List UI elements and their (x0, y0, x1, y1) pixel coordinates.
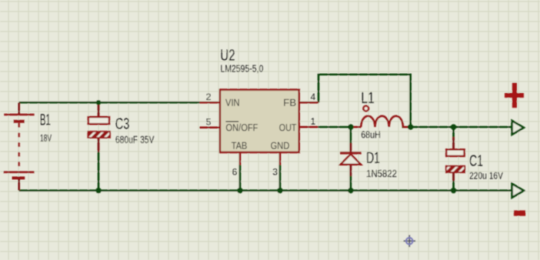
svg-text:B1: B1 (40, 112, 51, 129)
capacitor C3 (88, 117, 110, 138)
svg-text:3: 3 (273, 167, 278, 178)
wire: C3 top stub (97, 103, 99, 118)
origin marker (404, 235, 416, 247)
node: junction C3 / ground rail (96, 188, 102, 194)
pin 6 stub (TAB) (239, 152, 241, 165)
pin 4 stub (FB) (299, 102, 319, 104)
svg-text:1: 1 (311, 117, 316, 127)
svg-text:2: 2 (206, 92, 211, 102)
node: junction C1 / ground rail (451, 188, 457, 194)
node: junction C3 / top rail (96, 100, 101, 105)
svg-text:LM2595-5,0: LM2595-5,0 (220, 64, 263, 75)
svg-text:1N5822: 1N5822 (366, 169, 397, 180)
svg-text:C1: C1 (469, 153, 483, 170)
regulator IC U2 body (220, 90, 299, 153)
ground arrow (V- terminal) (512, 184, 524, 198)
svg-text:4: 4 (311, 92, 316, 102)
svg-text:680uF 35V: 680uF 35V (115, 135, 154, 146)
node: junction L1 right / FB (408, 124, 414, 130)
battery B1 (4, 103, 35, 191)
wire: FB loop pin 4 up over to L1 right (319, 75, 411, 128)
wire: C1 top stub (452, 127, 454, 137)
svg-text:D1: D1 (366, 150, 380, 167)
svg-text:OUT: OUT (279, 122, 297, 134)
node: junction pin3 / ground rail (277, 188, 283, 194)
wire: L1 right to output arrow (402, 126, 512, 128)
svg-text:C3: C3 (115, 116, 129, 133)
wire: C3 bottom to ground rail (97, 138, 99, 153)
wire: OUT pin 1 to L1 left (317, 126, 361, 128)
svg-text:VIN: VIN (225, 97, 239, 109)
wire: C1 bottom to ground rail (452, 173, 454, 182)
svg-text:5: 5 (206, 117, 211, 127)
wire: D1 branch down from OUT node (350, 127, 352, 143)
plus terminal symbol (505, 83, 524, 108)
svg-text:220u 16V: 220u 16V (469, 171, 503, 182)
svg-text:68uH: 68uH (361, 130, 381, 141)
wire: top rail from battery B1 to pin 2 of U2 (19, 101, 200, 103)
wire: D1 anode to ground rail (350, 165, 352, 177)
pin 1 stub (OUT) (299, 126, 318, 128)
diode D1 (schottky 1N5822) (340, 153, 361, 165)
pin 3 stub (GND) (279, 152, 281, 165)
svg-text:TAB: TAB (231, 140, 247, 152)
svg-text:6: 6 (232, 167, 237, 178)
output arrow (V+ terminal) (512, 121, 524, 135)
svg-text:U2: U2 (220, 47, 235, 64)
minus terminal symbol (514, 210, 526, 216)
inductor L1 (351, 106, 411, 127)
node: junction pin6 / ground rail (237, 188, 243, 194)
svg-text:18V: 18V (40, 134, 52, 145)
capacitor C1 (446, 150, 465, 173)
svg-text:ON/OFF: ON/OFF (226, 122, 258, 134)
node: junction C1 / output wire (451, 124, 457, 130)
pin 5 stub (ON/OFF) (200, 127, 221, 129)
svg-text:GND: GND (271, 140, 290, 152)
wire: bottom ground rail (19, 189, 512, 191)
pin 2 stub (VIN) (200, 102, 221, 104)
node: junction OUT/L1/D1 (348, 124, 354, 130)
svg-text:FB: FB (283, 97, 296, 109)
node: junction D1 / ground rail (348, 188, 354, 194)
svg-text:L1: L1 (361, 90, 375, 107)
